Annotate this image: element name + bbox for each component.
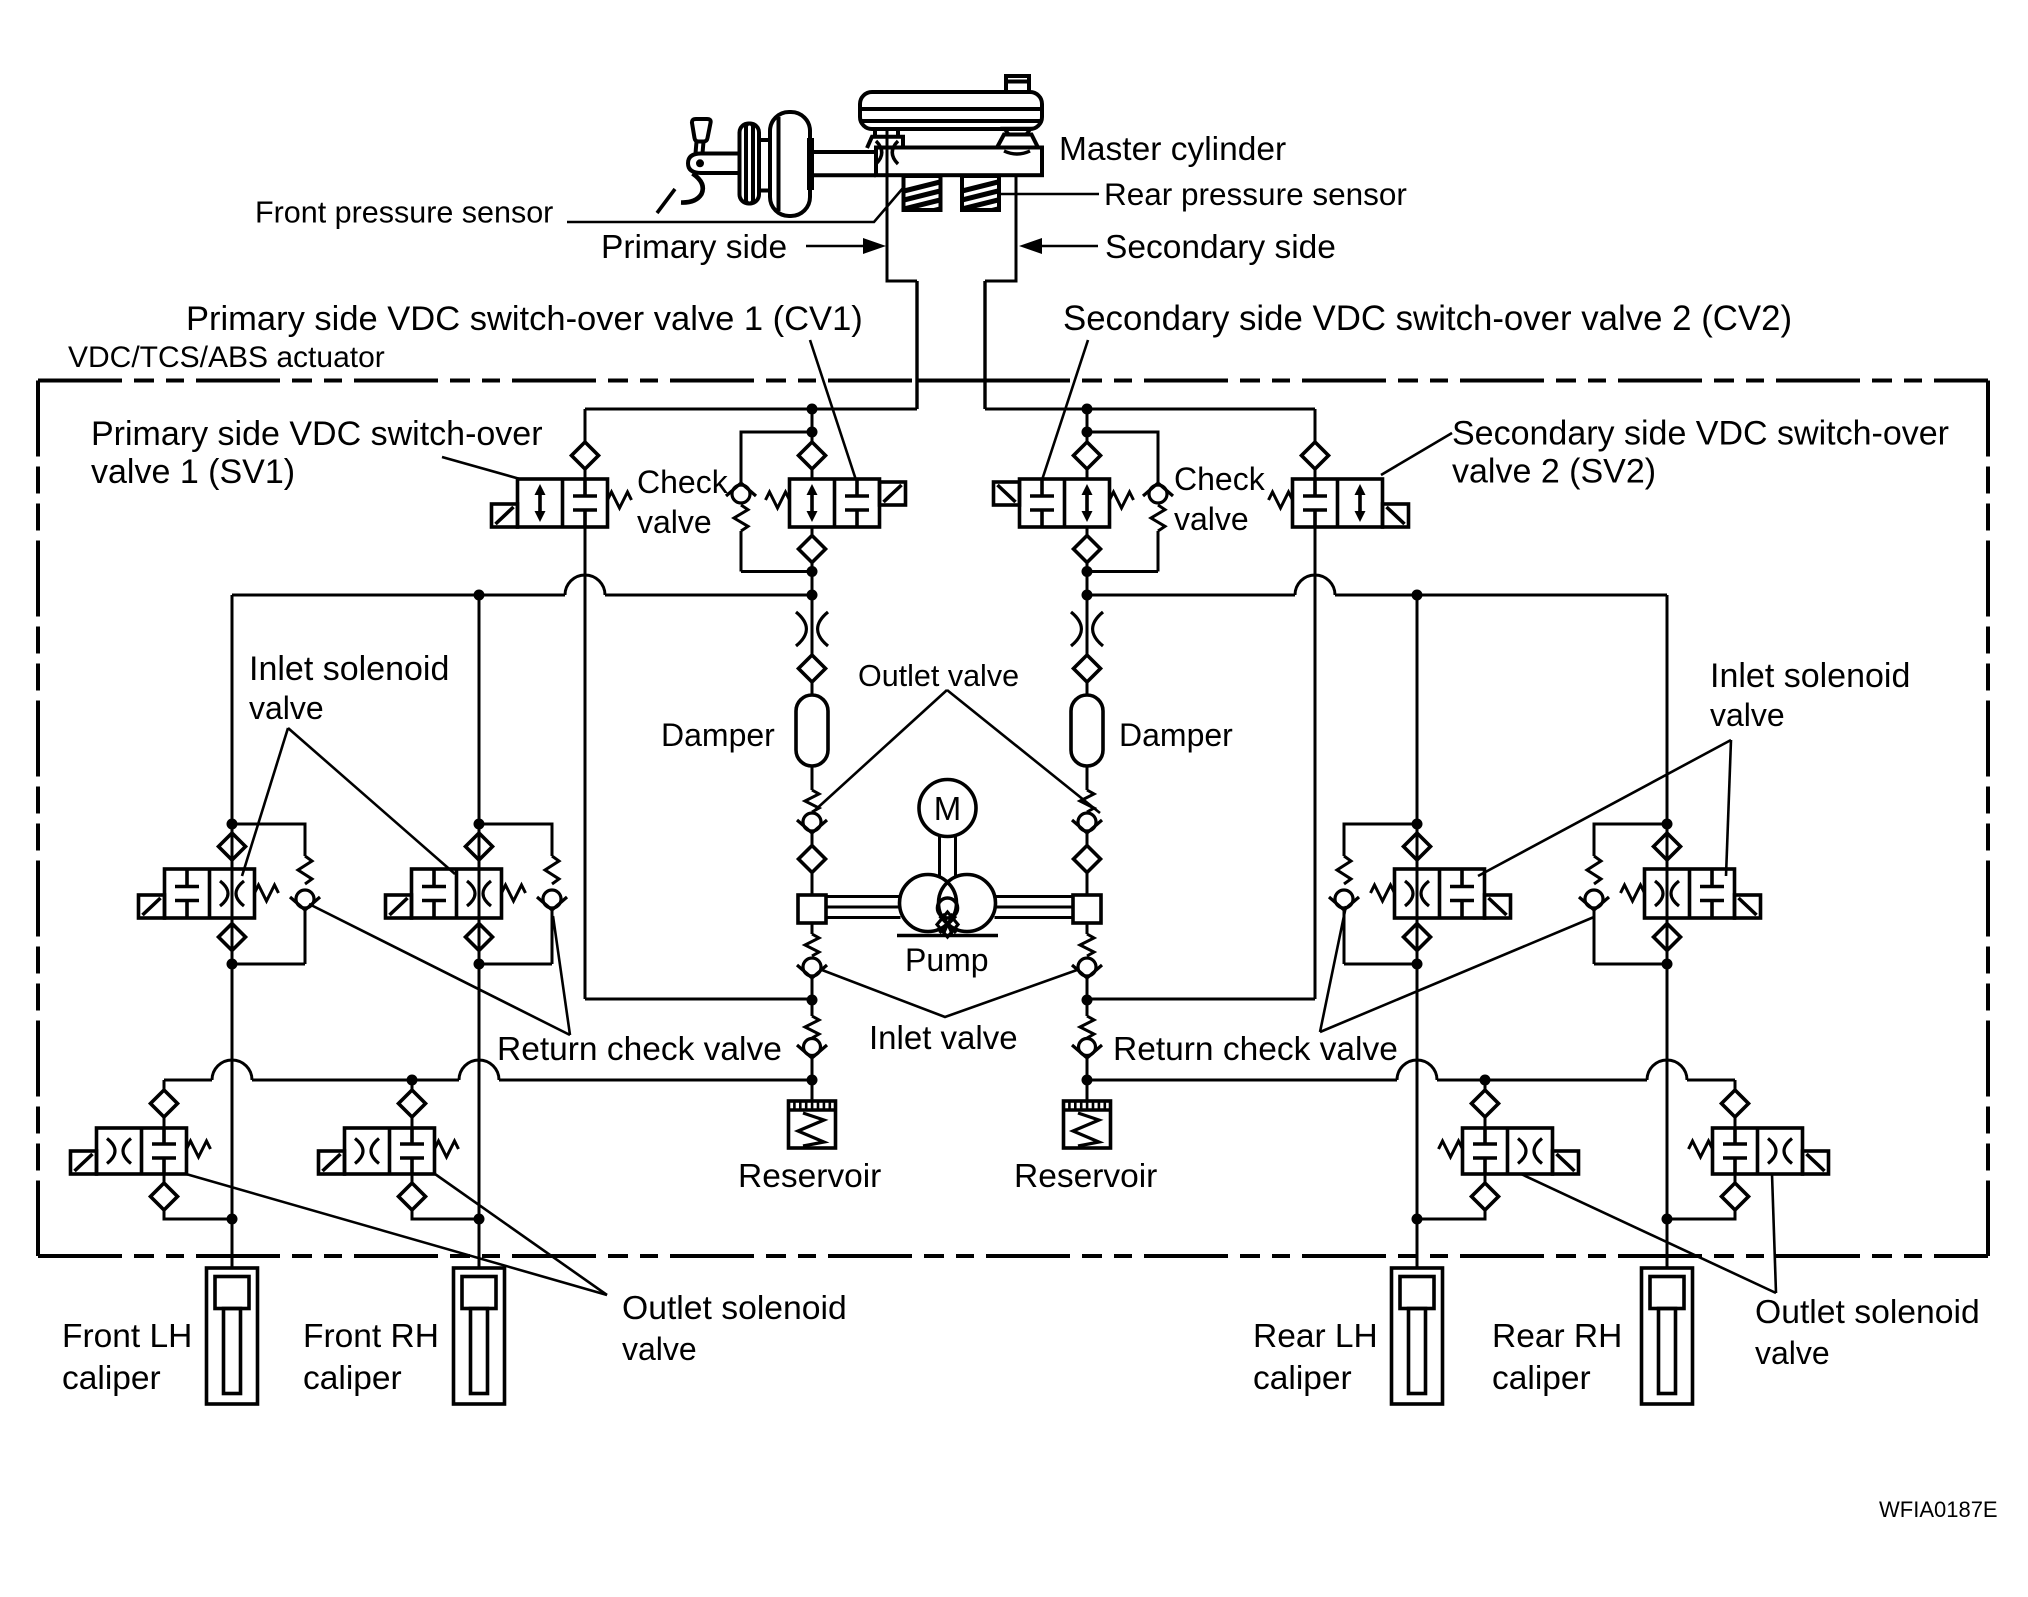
brake pedal lower lever: [681, 174, 703, 203]
inlet valve bypass loop x=1417: [1344, 824, 1417, 856]
svg-text:caliper: caliper: [303, 1360, 402, 1397]
inlet valve solenoid x=232: [139, 895, 165, 918]
svg-text:caliper: caliper: [1253, 1360, 1352, 1397]
inlet valve bypass return ball x=479: [543, 890, 561, 908]
svg-text:Master cylinder: Master cylinder: [1059, 131, 1286, 168]
svg-text:Check: Check: [637, 464, 729, 500]
inlet valve filter diamond below x=1417: [1404, 924, 1431, 951]
arrow primary side: [806, 245, 868, 248]
node CV1 bypass bottom: [807, 566, 818, 577]
Front RH caliper symbol: [454, 1268, 505, 1404]
SV1 arrow position box: [538, 488, 542, 518]
check valve 2 bypass loop: [1087, 432, 1158, 483]
brake pedal pad: [692, 119, 711, 142]
svg-text:Return check valve: Return check valve: [497, 1031, 782, 1068]
SV1 solenoid: [492, 504, 518, 527]
inlet valve body x=1667: [1645, 869, 1735, 918]
leader inlet solenoid left: [242, 728, 288, 876]
outlet valve orifice box x=1485: [1518, 1139, 1526, 1164]
rear RH caliper line upper: [1666, 595, 1669, 824]
leader inlet solenoid right: [1478, 740, 1731, 876]
node CV1 bypass top: [807, 427, 818, 438]
primary filter diamond above pump: [799, 846, 826, 873]
inlet valve bypass spring x=1667: [1587, 856, 1601, 884]
svg-text:Outlet solenoid: Outlet solenoid: [1755, 1293, 1980, 1331]
master cylinder primary line upper: [886, 131, 889, 175]
bridge lower rail over front LH line: [212, 1060, 252, 1080]
node outlet valve join x=1667: [1662, 1214, 1673, 1225]
leader rear pressure sensor: [1000, 193, 1099, 196]
CV1 valve body: [790, 479, 880, 527]
pump eccentric circles: [900, 875, 957, 932]
CV1 return spring: [766, 492, 790, 508]
primary return check spring: [805, 1016, 819, 1038]
left mid rail y595: [232, 594, 565, 597]
inlet valve bypass spring x=232: [298, 856, 312, 884]
svg-text:Outlet valve: Outlet valve: [858, 659, 1019, 693]
check valve 1 ball and seat: [732, 485, 750, 503]
primary inlet valve ball and seat: [803, 958, 821, 976]
pump cross hatch: [937, 912, 958, 937]
secondary column line rail to pump: [1086, 595, 1089, 612]
outlet valve solenoid x=164: [71, 1151, 97, 1174]
outlet valve orifice box x=412: [355, 1139, 363, 1164]
node inlet valve bottom x=232: [227, 959, 238, 970]
node outlet valve 2 rail: [407, 1075, 418, 1086]
node outlet valve join x=1417: [1412, 1214, 1423, 1225]
svg-text:valve: valve: [1755, 1335, 1830, 1371]
leader return check valve left: [309, 904, 570, 1035]
inlet valve bypass spring x=1417: [1337, 856, 1351, 884]
outlet valve body x=1485: [1463, 1128, 1553, 1174]
leader SV2: [1381, 433, 1452, 475]
secondary outlet valve spring: [1086, 766, 1089, 790]
bridge lower rail over rear LH line: [1397, 1060, 1437, 1080]
svg-text:caliper: caliper: [1492, 1360, 1591, 1397]
inlet valve capacitor box x=232: [185, 869, 189, 887]
front LH caliper line lower: [231, 964, 234, 1219]
leader outlet solenoid left: [186, 1174, 607, 1295]
inlet valve filter diamond below x=479: [466, 924, 493, 951]
outlet valve wire to caliper line x=1735: [1667, 1210, 1735, 1219]
CV2 capacitor position box: [1040, 479, 1044, 496]
inlet valve capacitor box x=1667: [1710, 869, 1714, 887]
damper secondary: [1071, 695, 1103, 766]
outlet valve filter diamond above x=1485: [1472, 1090, 1499, 1117]
left lower rail y1080: [164, 1079, 212, 1082]
node outlet valve join x=232: [227, 1214, 238, 1225]
svg-text:Front LH: Front LH: [62, 1318, 192, 1355]
node primary pump inlet wire: [807, 995, 818, 1006]
secondary inlet valve ball and seat: [1078, 958, 1096, 976]
SV2 capacitor position box: [1313, 479, 1317, 496]
outlet valve wire to caliper line x=1485: [1417, 1210, 1485, 1219]
outlet valve wire to caliper line x=412: [412, 1210, 479, 1219]
primary pump outlet spring: [811, 923, 814, 934]
SV1 switch-over valve line upper: [584, 409, 587, 442]
bridge over SV2 line: [1295, 575, 1335, 595]
SV2 switch-over valve line upper: [1314, 409, 1317, 442]
outlet valve orifice box x=1735: [1768, 1139, 1776, 1164]
outlet valve filter diamond below x=412: [411, 1174, 414, 1183]
svg-text:Inlet solenoid: Inlet solenoid: [249, 650, 449, 688]
inlet valve spring x=1667: [1621, 885, 1645, 901]
primary outlet valve ball and seat: [803, 813, 821, 831]
inlet valve filter diamond below x=1667: [1654, 924, 1681, 951]
node CV1 top: [807, 404, 818, 415]
outlet valve wire to caliper line x=164: [164, 1210, 232, 1219]
check valve 1 bypass loop: [741, 432, 812, 483]
CV1 filter diamond above: [799, 442, 826, 469]
node inlet valve bottom x=1667: [1662, 959, 1673, 970]
svg-text:Inlet solenoid: Inlet solenoid: [1710, 657, 1910, 695]
bridge lower rail over front RH line: [459, 1060, 499, 1080]
CV1 filter diamond below: [811, 527, 814, 536]
outlet valve solenoid x=1735: [1803, 1151, 1829, 1174]
outlet valve spring x=1485: [1439, 1141, 1463, 1157]
node inlet valve bottom x=479: [474, 959, 485, 970]
brake pedal upper lever: [696, 142, 697, 154]
bridge lower rail over rear RH line: [1647, 1060, 1687, 1080]
svg-text:Damper: Damper: [1119, 717, 1233, 753]
check valve 1 spring: [734, 505, 748, 531]
inlet valve bypass loop x=232: [232, 824, 305, 856]
VDC/TCS/ABS actuator dashed boundary box: [38, 381, 1988, 1257]
node inlet valve top x=232: [227, 819, 238, 830]
reservoir right nipple: [1004, 129, 1031, 135]
arrow secondary side: [1037, 245, 1098, 248]
SV2 solenoid: [1383, 504, 1409, 527]
outlet valve body x=1735: [1713, 1128, 1803, 1174]
master cylinder seal arcs: [876, 141, 882, 164]
inlet valve body x=1417: [1395, 869, 1485, 918]
caliper line to Front RH: [478, 1219, 481, 1268]
inlet valve solenoid x=1417: [1485, 895, 1511, 918]
CV2 valve body: [1020, 479, 1110, 527]
CV2 line upper: [1086, 409, 1089, 442]
master cylinder left flange: [867, 137, 903, 148]
SV1 capacitor position box: [583, 479, 587, 496]
outlet valve filter diamond below x=1735: [1734, 1174, 1737, 1183]
SV2 valve body: [1293, 479, 1383, 527]
svg-text:valve: valve: [1710, 697, 1785, 733]
reservoir secondary: [1064, 1101, 1111, 1148]
Front LH caliper symbol: [207, 1268, 258, 1404]
right mid rail y595: [1087, 594, 1295, 597]
booster disc connector: [759, 138, 770, 142]
wire SV1 to pump inlet: [585, 998, 812, 1001]
inlet valve body x=479: [412, 869, 502, 918]
inlet valve spring x=479: [502, 885, 526, 901]
master cylinder right boss: [997, 135, 1038, 148]
outlet valve capacitor box x=412: [410, 1128, 414, 1144]
wire secondary top rail y409: [985, 408, 1315, 411]
node primary lower rail: [807, 1075, 818, 1086]
damper primary: [796, 695, 828, 766]
primary side pipe: [915, 281, 918, 409]
secondary outlet valve ball and seat: [1078, 813, 1096, 831]
secondary return check spring: [1080, 1016, 1094, 1038]
svg-text:M: M: [934, 790, 962, 827]
node inlet valve top x=1667: [1662, 819, 1673, 830]
pump piston left: [798, 895, 826, 923]
inlet valve solenoid x=479: [386, 895, 412, 918]
node CV2 top: [1082, 404, 1093, 415]
inlet valve body x=232: [165, 869, 255, 918]
node inlet valve top x=1417: [1412, 819, 1423, 830]
svg-text:Secondary side VDC switch-over: Secondary side VDC switch-over: [1452, 415, 1949, 453]
booster output collar (filled): [807, 138, 814, 190]
outlet valve body x=412: [345, 1128, 435, 1174]
leader CV1: [810, 340, 856, 480]
inlet valve bypass return ball x=232: [296, 890, 314, 908]
inlet valve bypass return ball x=1667: [1585, 890, 1603, 908]
primary filter diamond below orifice: [799, 655, 826, 682]
svg-text:Primary side VDC switch-over v: Primary side VDC switch-over valve 1 (CV…: [186, 300, 863, 338]
SV1 line down to pump inlet wire: [584, 527, 587, 999]
inlet valve filter diamond above x=1417: [1404, 833, 1431, 860]
node secondary pump inlet wire: [1082, 995, 1093, 1006]
svg-text:valve 2 (SV2): valve 2 (SV2): [1452, 453, 1656, 491]
leader outlet valve: [813, 690, 947, 812]
motor M circle: [919, 780, 976, 837]
check valve 2 ball and seat: [1149, 485, 1167, 503]
CV1 solenoid: [880, 482, 906, 505]
solid boundary segment between primary and secondary pipes: [917, 379, 985, 383]
svg-text:valve: valve: [249, 690, 324, 726]
CV1 capacitor position box: [855, 479, 859, 496]
outlet valve capacitor box x=164: [162, 1128, 166, 1144]
pump piston right: [1073, 895, 1101, 923]
SV1 valve body: [518, 479, 608, 527]
primary outlet valve spring: [811, 766, 814, 790]
secondary orifice restriction: [1071, 612, 1081, 646]
master cylinder outlet manifold: [887, 175, 917, 281]
node inlet valve bottom x=1417: [1412, 959, 1423, 970]
inlet valve orifice box x=1417: [1405, 881, 1413, 906]
rear LH caliper line upper: [1416, 595, 1419, 824]
outlet valve spring x=1735: [1689, 1141, 1713, 1157]
inlet valve spring x=232: [255, 885, 279, 901]
node CV2 rail: [1082, 590, 1093, 601]
inlet valve filter diamond below x=232: [219, 924, 246, 951]
outlet solenoid valve on line x=1735: [1734, 1080, 1737, 1090]
leader inlet valve: [822, 970, 1077, 1017]
svg-text:Rear pressure sensor: Rear pressure sensor: [1104, 176, 1407, 212]
svg-text:valve: valve: [622, 1331, 697, 1367]
CV2 solenoid: [994, 482, 1020, 505]
outlet valve solenoid x=412: [319, 1151, 345, 1174]
primary orifice restriction: [796, 612, 806, 646]
node CV1 rail: [807, 590, 818, 601]
SV2 arrow position box: [1358, 488, 1362, 518]
pedal pivot arm: [688, 154, 739, 174]
svg-text:WFIA0187E: WFIA0187E: [1879, 1497, 1998, 1522]
bridge over SV1 line: [565, 575, 605, 595]
wire primary top rail y409: [585, 408, 917, 411]
caliper line to Rear LH: [1416, 1219, 1419, 1268]
svg-text:VDC/TCS/ABS actuator: VDC/TCS/ABS actuator: [68, 341, 385, 374]
secondary pump outlet spring: [1086, 923, 1089, 934]
CV2 filter diamond below: [1086, 527, 1089, 536]
svg-text:Secondary side VDC switch-over: Secondary side VDC switch-over valve 2 (…: [1063, 299, 1792, 338]
inlet valve bypass loop x=479: [479, 824, 552, 856]
svg-text:Primary side VDC switch-over: Primary side VDC switch-over: [91, 415, 543, 453]
master cylinder reservoir tank: [860, 92, 1042, 129]
inlet valve filter diamond above x=479: [466, 833, 493, 860]
check valve 2 spring: [1151, 505, 1165, 531]
caliper line to Rear RH: [1666, 1219, 1669, 1268]
node outlet valve 3 rail: [1480, 1075, 1491, 1086]
leader SV1: [442, 457, 520, 479]
inlet valve capacitor box x=479: [432, 869, 436, 887]
pump base line: [897, 934, 998, 938]
rear RH caliper line lower: [1666, 964, 1669, 1219]
SV2 filter diamond: [1302, 442, 1329, 469]
outlet valve filter diamond above x=1735: [1722, 1090, 1749, 1117]
outlet valve capacitor box x=1735: [1733, 1128, 1737, 1144]
booster main disc: [770, 112, 810, 216]
primary return check ball and seat: [804, 1039, 821, 1056]
booster inner line: [777, 117, 781, 211]
leader front pressure sensor: [567, 188, 903, 222]
inlet valve filter diamond above x=1667: [1654, 833, 1681, 860]
CV1 line upper: [811, 409, 814, 442]
rear LH caliper line lower: [1416, 964, 1419, 1219]
primary column line rail to pump: [811, 595, 814, 612]
outlet valve spring x=164: [187, 1141, 211, 1157]
outlet solenoid valve on line x=1485: [1484, 1080, 1487, 1090]
svg-text:Rear LH: Rear LH: [1253, 1318, 1378, 1355]
svg-text:Pump: Pump: [905, 942, 989, 978]
caliper line to Front LH: [231, 1219, 234, 1268]
front LH caliper line upper: [231, 595, 234, 824]
svg-text:valve 1 (SV1): valve 1 (SV1): [91, 453, 295, 491]
node rear LH rail: [1412, 590, 1423, 601]
outlet valve filter diamond above x=164: [151, 1090, 178, 1117]
CV2 filter diamond above: [1074, 442, 1101, 469]
CV2 arrow position box: [1085, 488, 1089, 518]
secondary filter diamond below orifice: [1074, 655, 1101, 682]
node inlet valve top x=479: [474, 819, 485, 830]
reservoir primary: [789, 1101, 836, 1148]
outlet valve filter diamond below x=1485: [1484, 1174, 1487, 1183]
outlet valve filter diamond below x=164: [163, 1174, 166, 1183]
svg-text:valve: valve: [1174, 501, 1249, 537]
master cylinder body: [876, 148, 1042, 176]
CV1 arrow position box: [810, 488, 814, 518]
Rear RH caliper symbol: [1642, 1268, 1693, 1404]
svg-text:Check: Check: [1174, 461, 1266, 497]
outlet valve solenoid x=1485: [1553, 1151, 1579, 1174]
svg-text:Rear RH: Rear RH: [1492, 1318, 1622, 1355]
node front RH rail: [474, 590, 485, 601]
svg-text:caliper: caliper: [62, 1360, 161, 1397]
svg-text:Outlet solenoid: Outlet solenoid: [622, 1289, 847, 1327]
svg-text:Secondary side: Secondary side: [1105, 229, 1336, 266]
SV1 return spring: [608, 492, 632, 508]
CV2 return spring: [1110, 492, 1134, 508]
SV1 filter diamond: [572, 442, 599, 469]
leader CV2: [1042, 340, 1088, 480]
SV2 return spring: [1269, 492, 1293, 508]
Rear LH caliper symbol: [1392, 1268, 1443, 1404]
secondary filter diamond above pump: [1074, 846, 1101, 873]
inlet valve orifice box x=232: [220, 881, 228, 906]
pump inner ball: [938, 898, 958, 918]
brake pedal foot tick: [657, 189, 675, 213]
inlet valve filter diamond above x=232: [219, 833, 246, 860]
leader outlet solenoid right: [1521, 1174, 1776, 1293]
svg-text:Front RH: Front RH: [303, 1318, 439, 1355]
leader return check valve right: [1320, 906, 1346, 1032]
outlet valve filter diamond above x=412: [399, 1090, 426, 1117]
inlet valve spring x=1417: [1371, 885, 1395, 901]
inlet valve orifice box x=479: [467, 881, 475, 906]
outlet valve spring x=412: [435, 1141, 459, 1157]
node CV2 bypass bottom: [1082, 566, 1093, 577]
svg-text:Damper: Damper: [661, 717, 775, 753]
right lower rail y1080: [1087, 1079, 1397, 1082]
outlet solenoid valve on line x=412: [411, 1080, 414, 1090]
node secondary lower rail: [1082, 1075, 1093, 1086]
inlet valve bypass loop x=1667: [1594, 824, 1667, 856]
front RH caliper line lower: [478, 964, 481, 1219]
outlet valve capacitor box x=1485: [1483, 1128, 1487, 1144]
svg-text:valve: valve: [637, 504, 712, 540]
secondary side pipe: [983, 281, 986, 409]
svg-text:Reservoir: Reservoir: [738, 1158, 881, 1195]
reservoir left nipple stubs: [873, 129, 877, 137]
svg-text:Primary side: Primary side: [601, 229, 787, 266]
booster thin disc: [740, 124, 760, 204]
node CV2 bypass top: [1082, 427, 1093, 438]
outlet solenoid valve on line x=164: [163, 1080, 166, 1090]
SV2 line down to pump inlet wire: [1314, 527, 1317, 999]
inlet valve orifice box x=1667: [1655, 881, 1663, 906]
reservoir filler cap: [1006, 76, 1029, 92]
wire SV2 to pump inlet: [1087, 998, 1315, 1001]
motor shaft: [938, 837, 941, 877]
secondary return check ball and seat: [1079, 1039, 1096, 1056]
node outlet valve join x=479: [474, 1214, 485, 1225]
outlet valve orifice box x=164: [107, 1139, 115, 1164]
svg-text:Return check valve: Return check valve: [1113, 1031, 1398, 1068]
inlet valve solenoid x=1667: [1735, 895, 1761, 918]
outlet valve body x=164: [97, 1128, 187, 1174]
inlet valve bypass return ball x=1417: [1335, 890, 1353, 908]
master cylinder push rod: [814, 150, 876, 154]
svg-text:Front pressure sensor: Front pressure sensor: [255, 196, 553, 230]
front RH caliper line upper: [478, 595, 481, 824]
inlet valve capacitor box x=1417: [1460, 869, 1464, 887]
inlet valve bypass spring x=479: [545, 856, 559, 884]
svg-text:Reservoir: Reservoir: [1014, 1158, 1157, 1195]
svg-text:Inlet valve: Inlet valve: [869, 1019, 1018, 1056]
